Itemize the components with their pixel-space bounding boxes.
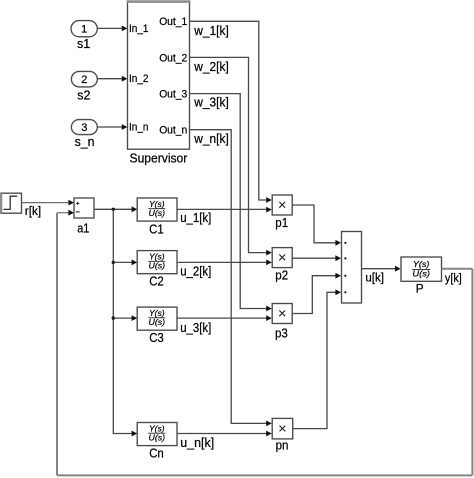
wire u_1 bbox=[177, 207, 272, 213]
svg-text:In_2: In_2 bbox=[129, 73, 149, 85]
svg-text:Out_2: Out_2 bbox=[159, 52, 187, 64]
svg-text:C3: C3 bbox=[149, 331, 164, 345]
wire w_1 bbox=[190, 21, 272, 203]
svg-text:s1: s1 bbox=[77, 37, 90, 51]
label C1 bbox=[149, 223, 164, 237]
label w_1[k] bbox=[193, 24, 228, 38]
label r[k] bbox=[25, 206, 41, 218]
wire pn to mux bbox=[293, 289, 341, 428]
wire feedback to a1 minus bbox=[57, 210, 74, 216]
wire feedback right vertical bbox=[471, 269, 473, 476]
svg-text:Out_1: Out_1 bbox=[159, 16, 187, 28]
wire s_n to In_n bbox=[97, 124, 127, 130]
svg-text:pn: pn bbox=[276, 439, 289, 453]
block C1 bbox=[137, 198, 177, 221]
svg-text:3: 3 bbox=[81, 122, 87, 134]
svg-text:P: P bbox=[416, 281, 424, 295]
svg-text:u[k]: u[k] bbox=[365, 272, 384, 284]
source s_n (constant 3) bbox=[71, 120, 97, 135]
multiplier p1 bbox=[272, 195, 292, 215]
svg-text:a1: a1 bbox=[77, 221, 89, 235]
wire u_n bbox=[177, 431, 272, 437]
svg-text:U(s): U(s) bbox=[149, 433, 166, 442]
label P bbox=[416, 281, 424, 295]
label p1 bbox=[275, 216, 288, 230]
svg-text:p2: p2 bbox=[275, 269, 288, 283]
multiplier p2 bbox=[272, 248, 292, 268]
wire p1 to mux bbox=[292, 205, 341, 246]
svg-text:s_n: s_n bbox=[75, 135, 95, 149]
wire feedback bottom bbox=[57, 474, 472, 476]
svg-text:U(s): U(s) bbox=[412, 269, 430, 279]
block C3 bbox=[137, 307, 177, 330]
svg-text:Y(s): Y(s) bbox=[149, 424, 165, 433]
svg-text:u_n[k]: u_n[k] bbox=[180, 436, 214, 450]
svg-text:Supervisor: Supervisor bbox=[130, 152, 188, 166]
label C2 bbox=[149, 275, 164, 289]
block Cn bbox=[137, 423, 177, 446]
wire s1 to In_1 bbox=[97, 26, 127, 32]
multiplier pn bbox=[272, 418, 293, 439]
svg-text:w_1[k]: w_1[k] bbox=[193, 24, 228, 38]
svg-text:1: 1 bbox=[81, 24, 87, 36]
wire r[k] to a1 plus bbox=[22, 200, 75, 206]
svg-text:r[k]: r[k] bbox=[25, 206, 41, 218]
wire branch vertical bbox=[113, 209, 137, 436]
svg-text:y[k]: y[k] bbox=[445, 273, 462, 285]
wire p3 to mux bbox=[292, 273, 341, 314]
label u[k] bbox=[365, 272, 384, 284]
wire a1 to C1 bbox=[94, 206, 137, 212]
svg-text:w_n[k]: w_n[k] bbox=[193, 132, 228, 146]
svg-text:u_1[k]: u_1[k] bbox=[180, 211, 211, 225]
wire feedback left vertical bbox=[56, 213, 58, 476]
svg-text:Y(s): Y(s) bbox=[149, 309, 165, 318]
svg-text:w_2[k]: w_2[k] bbox=[193, 60, 228, 74]
svg-text:C1: C1 bbox=[149, 223, 164, 237]
wire u[k] mux to P bbox=[362, 266, 401, 272]
label u_1[k] bbox=[180, 211, 211, 225]
svg-text:U(s): U(s) bbox=[149, 209, 166, 218]
svg-text:Y(s): Y(s) bbox=[413, 259, 430, 269]
wire w_n bbox=[190, 130, 272, 427]
svg-text:Y(s): Y(s) bbox=[149, 200, 165, 209]
label Cn bbox=[149, 446, 164, 460]
block Supervisor bbox=[127, 2, 191, 150]
label y[k] bbox=[445, 273, 462, 285]
label a1 bbox=[77, 221, 89, 235]
svg-text:p3: p3 bbox=[275, 327, 288, 341]
svg-text:U(s): U(s) bbox=[149, 318, 166, 327]
label s_n bbox=[75, 135, 95, 149]
wire p2 to mux bbox=[292, 255, 341, 261]
svg-text:C2: C2 bbox=[149, 275, 164, 289]
mux block bbox=[342, 232, 362, 304]
sum a1 bbox=[74, 198, 94, 218]
label p3 bbox=[275, 327, 288, 341]
svg-text:In_n: In_n bbox=[129, 122, 149, 134]
label u_3[k] bbox=[180, 321, 211, 335]
wire w_2 bbox=[190, 57, 272, 255]
wire branch to C3 bbox=[113, 315, 137, 321]
label s1 bbox=[77, 37, 90, 51]
label u_2[k] bbox=[180, 264, 211, 278]
svg-text:U(s): U(s) bbox=[149, 262, 166, 271]
node branch junction 2 bbox=[112, 261, 115, 264]
svg-text:Out_3: Out_3 bbox=[159, 89, 187, 101]
svg-text:Y(s): Y(s) bbox=[149, 252, 165, 261]
source s1 (constant 1) bbox=[71, 21, 97, 37]
wire s2 to In_2 bbox=[97, 76, 127, 82]
wire w_3 bbox=[190, 94, 272, 312]
svg-text:s2: s2 bbox=[77, 89, 90, 103]
label s2 bbox=[77, 89, 90, 103]
multiplier p3 bbox=[272, 304, 292, 324]
label pn bbox=[276, 439, 289, 453]
label C3 bbox=[149, 331, 164, 345]
svg-text:w_3[k]: w_3[k] bbox=[193, 96, 228, 110]
svg-text:u_3[k]: u_3[k] bbox=[180, 321, 211, 335]
wire branch to C2 bbox=[113, 260, 137, 266]
wire P output to right edge bbox=[442, 268, 473, 270]
label w_n[k] bbox=[193, 132, 228, 146]
svg-text:In_1: In_1 bbox=[129, 23, 149, 35]
svg-text:u_2[k]: u_2[k] bbox=[180, 264, 211, 278]
svg-text:Out_n: Out_n bbox=[159, 125, 187, 137]
svg-text:Cn: Cn bbox=[149, 446, 164, 460]
svg-text:2: 2 bbox=[81, 74, 87, 86]
label p2 bbox=[275, 269, 288, 283]
source s2 (constant 2) bbox=[71, 71, 97, 87]
label w_2[k] bbox=[193, 60, 228, 74]
block P bbox=[401, 257, 442, 281]
label w_3[k] bbox=[193, 96, 228, 110]
label u_n[k] bbox=[180, 436, 214, 450]
svg-text:p1: p1 bbox=[275, 216, 288, 230]
wire u_2 bbox=[177, 260, 272, 266]
wire u_3 bbox=[177, 315, 272, 321]
node branch junction 1 bbox=[112, 208, 115, 211]
block step source bbox=[1, 193, 22, 213]
node branch junction 3 bbox=[112, 316, 115, 319]
block C2 bbox=[137, 251, 177, 274]
label Supervisor bbox=[130, 152, 188, 166]
